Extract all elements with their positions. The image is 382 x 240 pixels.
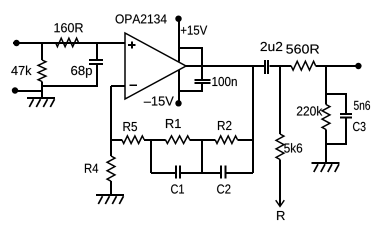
op-amp - input mark (130, 84, 137, 86)
wire 5n6 bottom (326, 119, 346, 145)
ground right (312, 162, 340, 164)
label 68p (71, 66, 92, 78)
wire C1-C2 rail (181, 172, 220, 174)
label +15V (181, 26, 207, 35)
-15V terminal (175, 100, 181, 106)
wire R2 to tap (238, 139, 254, 141)
resistor R5 (122, 136, 144, 144)
wire 220k to ground (325, 130, 327, 164)
label 560R (286, 44, 319, 53)
label R1 (166, 119, 181, 128)
wire R4 to ground (110, 181, 112, 195)
op-amp + input mark (128, 44, 135, 46)
label 47k (11, 66, 31, 75)
wire lower-left terminal (15, 90, 42, 92)
wire 47k bottom to ground (41, 82, 43, 99)
resistor R1 (165, 136, 189, 144)
wire C1 rail left (151, 172, 175, 174)
label -15V (144, 97, 174, 106)
label 100n (212, 77, 236, 86)
label R4 (85, 164, 98, 173)
label 5n6 (354, 101, 370, 110)
resistor 47k (38, 60, 46, 82)
resistor 5k6 (276, 134, 284, 160)
label 220k (297, 106, 322, 116)
label C3 (353, 122, 366, 131)
capacitor 2u2 (264, 60, 266, 74)
label R5 (123, 122, 137, 131)
op-amp U1 OPA2134 (125, 33, 186, 99)
capacitor C1 (175, 166, 177, 179)
wire to 5n6 top (326, 94, 346, 113)
wire input to op-amp + (13, 42, 125, 44)
capacitor C3 5n6 (340, 113, 352, 115)
wire - input vertical (110, 86, 112, 156)
wire - input stub (111, 85, 125, 87)
label 2u2 (261, 42, 283, 51)
wire +15V supply (178, 19, 180, 62)
wire 220k top (325, 66, 327, 104)
label C2 (217, 184, 230, 193)
wire 47k top (41, 43, 43, 60)
wire node C (190, 139, 215, 141)
wire 5k6 top (279, 66, 281, 134)
input terminal (13, 40, 19, 46)
wire node B down (150, 140, 152, 173)
resistor R2 (215, 136, 237, 144)
wire 2u2 to 560R (270, 65, 292, 67)
wire node B (144, 139, 165, 141)
ground lower-left (27, 97, 55, 99)
wire 68p bottom return (42, 65, 97, 86)
wire 100n bottom (179, 84, 202, 91)
label 5k6 (284, 143, 302, 153)
label OPA2134 (116, 14, 167, 23)
resistor R4 (107, 156, 115, 181)
+15V terminal (175, 16, 181, 22)
wire C2 rail right (226, 172, 253, 174)
terminal lower-left (12, 87, 18, 93)
wire -15V supply (178, 70, 180, 103)
resistor 160R (56, 38, 79, 47)
ground R4 (96, 194, 124, 196)
output terminal (355, 63, 361, 69)
capacitor 100n (195, 79, 211, 81)
wire to R arrow (279, 160, 281, 207)
wire feedback tap (252, 66, 254, 173)
resistor 220k (322, 105, 330, 130)
label C1 (171, 184, 184, 193)
label R2 (218, 121, 231, 130)
wire node C down (201, 140, 203, 173)
wire 68p top (96, 43, 98, 60)
capacitor 68p (89, 59, 103, 61)
wire 560R to output (316, 65, 359, 67)
capacitor C2 (220, 166, 222, 179)
label 160R (54, 23, 82, 32)
arrow to R (276, 200, 285, 206)
wire R5 left (111, 139, 122, 141)
wire op-amp output (186, 65, 264, 67)
resistor 560R (291, 61, 316, 70)
label R (277, 211, 285, 220)
wire 100n top (179, 48, 202, 80)
